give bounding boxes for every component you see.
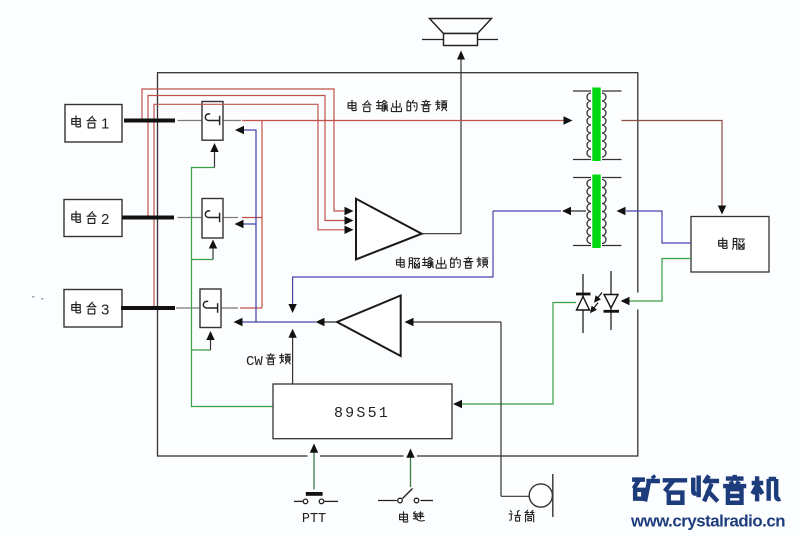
wire red bus radio3 to amp <box>154 104 345 308</box>
wire gray stubs relay2 <box>178 217 239 219</box>
svg-text:CW: CW <box>246 354 263 370</box>
box 电台3 <box>64 290 122 328</box>
wire mic to CW amp <box>413 322 529 496</box>
terminal bar radio3 <box>121 306 175 310</box>
wire red radio audio line to T1 <box>242 116 573 124</box>
wire blue vertical to relay CW inputs <box>235 126 257 322</box>
label 话筒 microphone <box>509 510 534 521</box>
svg-text:3: 3 <box>101 301 109 318</box>
wire MCU to CW junction <box>288 329 296 384</box>
box 电脑 computer <box>691 217 769 273</box>
svg-text:PTT: PTT <box>302 512 326 527</box>
wire gray stubs relay3 <box>176 307 238 309</box>
arrows into relay coil bottoms <box>206 143 218 350</box>
svg-text:2: 2 <box>101 211 109 228</box>
wire CW audio line to relays <box>234 318 338 326</box>
watermark logo 矿石收音机 <box>632 475 780 503</box>
label 电键 key <box>400 512 425 523</box>
relay J1 <box>202 102 223 141</box>
arrows into amp U1 <box>345 207 354 234</box>
box 电台1 <box>65 105 122 143</box>
box MCU 89S51 <box>273 384 452 439</box>
optocoupler diode right <box>604 271 620 330</box>
transformer T1 <box>573 88 622 162</box>
wire amp output to speaker <box>422 51 466 234</box>
transformer T2 <box>573 175 622 249</box>
speaker <box>422 19 498 46</box>
PTT push button <box>294 492 338 504</box>
svg-text:www.crystalradio.cn: www.crystalradio.cn <box>630 512 785 531</box>
svg-text:89S51: 89S51 <box>334 405 390 422</box>
wire blue computer out to T2 <box>617 207 692 243</box>
wire red bus radio2 to amp <box>148 96 345 221</box>
relay J2 <box>202 199 223 239</box>
microphone <box>529 474 553 517</box>
wire green optocoupler to MCU <box>453 303 576 409</box>
op-amp U1 speaker amplifier <box>356 199 422 260</box>
relay J3 <box>200 289 221 328</box>
wire PTT to MCU <box>310 444 318 490</box>
op-amp U2 CW/mic amplifier <box>337 296 401 357</box>
wire green computer to optocoupler <box>621 259 692 306</box>
wire dark red T1 to computer <box>622 121 727 215</box>
optocoupler diode left <box>576 274 591 333</box>
wire red bus radio1 to amp <box>142 89 345 211</box>
label CW音频 <box>246 354 290 370</box>
optocoupler light arrows <box>587 293 602 316</box>
label 电脑输出的音频 computer output audio <box>396 257 487 268</box>
label 电台输出的音频 radio output audio <box>348 100 447 111</box>
wire key to MCU <box>406 449 414 488</box>
terminal bar radio1 <box>124 119 175 123</box>
telegraph key switch <box>378 489 433 503</box>
wire blue T2 output to CW junction <box>288 207 586 313</box>
terminal bar radio2 <box>122 216 174 220</box>
enclosure main interface box <box>158 73 640 458</box>
svg-text:1: 1 <box>101 115 109 132</box>
wire green relay control bus <box>192 168 273 407</box>
node dots artifact <box>32 296 44 300</box>
wire red vertical joining relays to audio line <box>240 121 262 309</box>
wire gray stubs relay1 <box>178 120 242 122</box>
box 电台2 <box>64 200 122 237</box>
